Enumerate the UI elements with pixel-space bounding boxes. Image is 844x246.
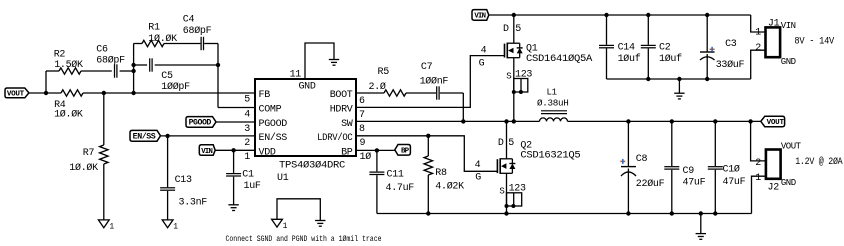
svg-text:VOUT: VOUT [781,142,802,152]
svg-text:FB: FB [259,90,271,101]
svg-text:4.7uF: 4.7uF [386,183,415,194]
svg-text:C7: C7 [421,62,433,73]
svg-text:C4: C4 [183,15,195,26]
svg-text:R8: R8 [435,168,447,179]
svg-text:9: 9 [360,138,366,149]
svg-text:R7: R7 [83,148,95,159]
svg-text:4: 4 [481,46,487,57]
svg-text:1Øuf: 1Øuf [618,53,641,65]
svg-text:3.3nF: 3.3nF [179,197,208,208]
svg-text:R2: R2 [54,50,66,61]
svg-text:C3: C3 [725,39,737,50]
svg-text:1: 1 [755,173,761,184]
svg-text:GND: GND [298,81,315,92]
svg-text:8: 8 [359,124,365,135]
svg-text:PGOOD: PGOOD [189,119,212,128]
svg-text:2: 2 [755,43,761,54]
svg-text:3: 3 [244,124,250,135]
svg-text:1.5ØK: 1.5ØK [54,59,83,71]
svg-text:BOOT: BOOT [330,90,353,101]
svg-text:S: S [499,186,504,196]
svg-text:1Ø.ØK: 1Ø.ØK [69,162,98,174]
svg-text:R1: R1 [148,23,160,34]
svg-text:7: 7 [359,110,365,121]
svg-text:1ØØnF: 1ØØnF [420,75,449,87]
svg-text:HDRV: HDRV [330,105,353,116]
svg-text:1Ø.ØK: 1Ø.ØK [148,33,177,45]
svg-text:SW: SW [341,119,353,130]
svg-text:LDRV/OC: LDRV/OC [317,132,353,144]
svg-text:1: 1 [109,223,114,232]
svg-text:VIN: VIN [781,21,796,31]
svg-text:68ØpF: 68ØpF [96,54,125,66]
svg-text:U1: U1 [277,173,289,184]
svg-text:1: 1 [283,222,288,231]
svg-text:123: 123 [515,70,532,81]
svg-text:8V - 14V: 8V - 14V [794,37,834,48]
svg-text:BP: BP [341,148,353,159]
svg-text:2: 2 [244,138,250,149]
svg-text:C8: C8 [636,154,648,165]
svg-text:1: 1 [173,223,178,232]
svg-text:1.2V @ 2ØA: 1.2V @ 2ØA [795,156,842,168]
svg-text:C2: C2 [659,42,671,53]
svg-text:C13: C13 [175,175,192,186]
svg-text:VIN: VIN [201,148,212,156]
svg-text:GND: GND [781,57,796,67]
svg-text:4: 4 [244,109,250,120]
svg-text:C1: C1 [242,169,254,180]
svg-text:5: 5 [508,138,514,149]
svg-text:47uF: 47uF [723,177,746,188]
svg-text:4.Ø2K: 4.Ø2K [435,181,464,193]
svg-text:EN/SS: EN/SS [133,132,156,142]
svg-text:CSD1641ØQ5A: CSD1641ØQ5A [526,53,592,65]
svg-text:J2: J2 [768,182,780,193]
svg-text:22ØuF: 22ØuF [636,178,665,190]
svg-text:R5: R5 [378,67,390,78]
svg-text:1ØØpF: 1ØØpF [161,81,190,93]
svg-text:2.Ø: 2.Ø [369,81,386,93]
svg-text:C5: C5 [161,71,173,82]
svg-text:G: G [479,59,485,70]
svg-text:J1: J1 [768,19,780,30]
svg-text:C14: C14 [618,42,635,53]
svg-text:D: D [498,138,504,149]
svg-text:EN/SS: EN/SS [259,132,288,144]
svg-text:L1: L1 [547,87,557,97]
svg-text:1uF: 1uF [244,181,261,192]
svg-text:C9: C9 [683,166,695,177]
svg-text:G: G [475,173,481,184]
svg-text:1Øuf: 1Øuf [659,53,682,65]
svg-text:5: 5 [244,95,250,106]
svg-text:47uF: 47uF [683,178,706,189]
svg-text:68ØpF: 68ØpF [183,25,212,37]
svg-text:2: 2 [755,158,761,169]
svg-text:Ø.38uH: Ø.38uH [537,98,569,109]
svg-text:Q1: Q1 [526,44,538,55]
svg-text:COMP: COMP [259,105,282,116]
svg-text:C6: C6 [96,45,108,56]
svg-text:1Ø: 1Ø [360,151,372,163]
svg-text:Connect SGND and PGND with a 1: Connect SGND and PGND with a 1Ømil trace [226,235,382,244]
svg-text:123: 123 [509,184,526,195]
svg-text:GND: GND [781,178,796,188]
svg-text:S: S [506,71,511,81]
svg-text:33ØuF: 33ØuF [716,59,745,71]
svg-text:VDD: VDD [259,148,276,159]
svg-text:C1Ø: C1Ø [723,164,740,176]
svg-text:1: 1 [755,28,761,39]
svg-text:TPS4Ø3Ø4DRC: TPS4Ø3Ø4DRC [279,159,345,171]
svg-text:BP: BP [401,148,410,156]
svg-text:CSD16321Q5: CSD16321Q5 [520,151,580,162]
svg-text:C11: C11 [387,170,404,181]
svg-text:VOUT: VOUT [767,119,785,127]
svg-text:D: D [503,24,509,35]
svg-text:VIN: VIN [474,13,485,21]
svg-text:PGOOD: PGOOD [259,119,288,130]
svg-text:1Ø.ØK: 1Ø.ØK [54,109,83,121]
svg-text:11: 11 [290,70,302,81]
svg-text:5: 5 [515,24,521,35]
svg-text:4: 4 [475,160,481,171]
svg-text:1: 1 [244,152,250,163]
svg-text:VOUT: VOUT [7,91,25,99]
svg-text:6: 6 [359,96,365,107]
